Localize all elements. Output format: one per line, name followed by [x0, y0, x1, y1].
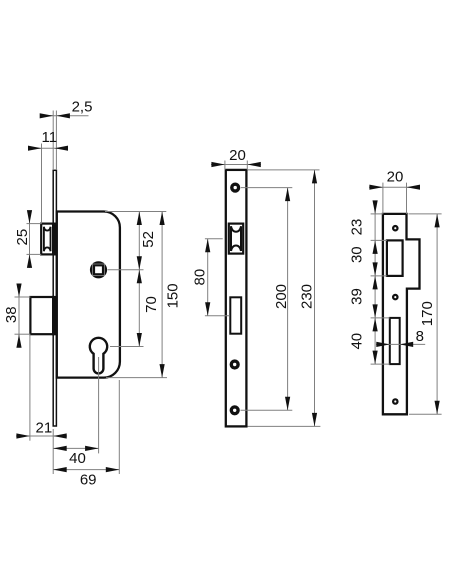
spindle follower square: [90, 261, 107, 278]
dimension 170 strike length: [409, 214, 442, 414]
latch bolt side view: [41, 223, 57, 256]
faceplate side view bar: [53, 170, 56, 426]
svg-text:230: 230: [298, 284, 315, 309]
svg-text:23: 23: [349, 219, 366, 236]
strike plate outline: [383, 214, 420, 414]
strike screw hole top: [393, 226, 397, 230]
svg-text:40: 40: [69, 450, 86, 467]
dimension 150 case height: [106, 212, 181, 378]
dimension 2,5 faceplate thickness: [40, 99, 93, 171]
dimension 69 case depth: [53, 380, 119, 489]
dimension 38 deadbolt height: [3, 284, 30, 348]
strike screw hole middle: [393, 295, 397, 299]
svg-text:80: 80: [192, 269, 209, 286]
svg-text:8: 8: [416, 328, 424, 345]
strike deadbolt cutout: [390, 318, 400, 364]
dimension 11 backset of latch face: [28, 129, 68, 224]
faceplate screw hole bottom: [231, 407, 238, 414]
euro cylinder keyhole: [90, 338, 107, 374]
svg-text:69: 69: [80, 472, 97, 489]
svg-text:38: 38: [3, 306, 20, 323]
faceplate screw hole top: [232, 184, 239, 191]
dimension 230 faceplate length: [248, 170, 321, 427]
faceplate deadbolt cutout: [230, 297, 241, 333]
dimension chain 23 / 30 / 39 / 40: [349, 200, 390, 364]
strike latch cutout: [387, 240, 403, 276]
dimension 8 deadbolt cutout width: [376, 328, 425, 347]
svg-text:21: 21: [36, 420, 53, 437]
svg-text:40: 40: [349, 333, 366, 350]
dimension 40 faceplate to cylinder axis: [53, 357, 98, 474]
svg-text:11: 11: [42, 129, 58, 146]
faceplate front outline: [226, 170, 247, 427]
svg-text:25: 25: [14, 229, 31, 246]
svg-text:70: 70: [143, 296, 160, 313]
faceplate latch cutout: [229, 224, 243, 254]
dimension 25 latch height: [14, 210, 41, 268]
svg-text:20: 20: [387, 169, 404, 186]
strike screw hole bottom: [393, 399, 397, 403]
svg-text:150: 150: [164, 283, 181, 308]
svg-text:2,5: 2,5: [72, 99, 93, 116]
deadbolt side view: [30, 296, 57, 335]
svg-text:200: 200: [273, 284, 290, 309]
dimension 200 screw hole spacing: [241, 188, 293, 411]
svg-text:52: 52: [140, 231, 157, 248]
dimension 20 faceplate width: [211, 147, 261, 170]
dimension 21 deadbolt throw: [16, 334, 67, 441]
svg-text:30: 30: [349, 246, 366, 263]
svg-text:39: 39: [349, 288, 366, 305]
svg-text:170: 170: [419, 301, 436, 326]
lock case body: [57, 212, 120, 378]
dimension 80 latch axis to deadbolt axis: [192, 239, 230, 316]
dimension 70 follower to cylinder: [110, 270, 160, 347]
svg-text:20: 20: [229, 147, 246, 164]
faceplate screw hole middle: [231, 361, 238, 368]
dimension 52 top edge to follower: [105, 212, 166, 347]
dimension 20 strike width: [369, 169, 420, 214]
